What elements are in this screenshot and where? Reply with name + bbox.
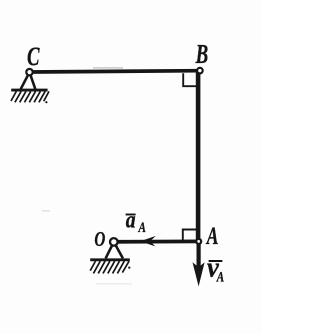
svg-text:A: A — [216, 268, 224, 285]
ground hatching at C — [11, 91, 49, 102]
label v_A : subscript A — [216, 268, 224, 285]
pin C (hinge circle) — [26, 69, 32, 75]
pin A (hinge circle) — [196, 239, 201, 244]
link CB (bar from pin C to node B) — [31, 71, 199, 72]
node label O — [94, 227, 105, 250]
velocity arrow v_A (downward from A) — [197, 243, 201, 272]
support triangle at C — [21, 72, 36, 89]
svg-text:A: A — [138, 218, 146, 235]
svg-text:O: O — [94, 227, 105, 250]
ground hatching dot at C — [45, 101, 47, 103]
label v_A : letter v — [207, 252, 220, 283]
svg-text:C: C — [27, 42, 40, 71]
faint scan smudge left-mid — [42, 210, 50, 212]
ground line at O — [90, 258, 130, 261]
pin B (hinge circle) — [197, 68, 203, 74]
acceleration arrow a_A (points left along OA, tip near x=141) — [140, 236, 156, 247]
support triangle at O — [106, 242, 123, 259]
faint scan speck above top bar — [93, 67, 123, 68]
ground hatching dot at O — [128, 267, 130, 269]
right-angle marker at A — [183, 230, 196, 242]
label v_A (velocity) : overbar — [209, 260, 223, 262]
link OA (bar from pin O to node A) — [114, 239, 199, 243]
node label C — [27, 42, 40, 71]
ground hatching at O — [90, 261, 129, 273]
faint scan smudge bottom — [96, 283, 132, 285]
pin O (hinge circle) — [110, 238, 118, 246]
node label A — [205, 222, 218, 250]
svg-text:B: B — [195, 40, 208, 70]
svg-text:A: A — [205, 222, 218, 250]
node label B — [195, 40, 208, 70]
right-angle marker at B — [183, 73, 196, 86]
label a_A : subscript A — [138, 218, 146, 235]
svg-text:a: a — [126, 206, 136, 233]
label a_A : letter a — [126, 206, 136, 233]
label a_A (acceleration) : overbar — [126, 214, 136, 216]
ground line at C — [11, 89, 47, 92]
link BA (vertical bar from B down to A) — [196, 71, 201, 241]
